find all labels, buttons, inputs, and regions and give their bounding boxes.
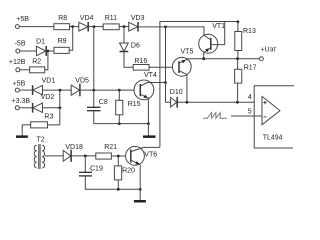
resistor R8: [54, 15, 70, 30]
resistor R16: [133, 58, 149, 70]
wire R11 to VD3: [119, 26, 129, 28]
svg-text:R9: R9: [58, 38, 67, 45]
wire R21 to VT6 base: [111, 155, 130, 157]
wire R3 left down: [22, 125, 31, 136]
svg-text:+Uэт: +Uэт: [261, 47, 278, 54]
diode VD4: [79, 15, 94, 31]
node VT6 emitter / rail: [139, 188, 142, 191]
wire VT1 base to top rail: [211, 22, 225, 45]
svg-text:R20: R20: [122, 168, 135, 175]
wire top rail: [160, 22, 238, 148]
svg-text:R8: R8: [58, 15, 67, 22]
resistor R20: [114, 166, 135, 180]
terminal +5V (second): [13, 80, 26, 92]
svg-text:4: 4: [248, 94, 252, 101]
transistor VT1: [199, 23, 225, 53]
resistor R15: [116, 100, 141, 115]
wire VD3 to VT1 collector: [138, 27, 204, 35]
wire R2 up to D1/R9 node: [45, 51, 48, 70]
svg-text:+5В: +5В: [13, 80, 26, 87]
wire +5V to VD1: [19, 89, 32, 91]
wire VD3 node down to D10: [166, 27, 171, 102]
terminal +Uet: [260, 47, 278, 61]
svg-text:VD2: VD2: [41, 94, 55, 101]
wire -5V to D1: [20, 50, 37, 52]
node R21 / R20 branch: [117, 155, 120, 158]
node R11/D6 junction: [123, 25, 126, 28]
terminal +12V: [9, 59, 26, 72]
node R15 bottom: [118, 122, 121, 125]
node VD5 / C8 branch: [92, 89, 95, 92]
wire VT1 emitter down: [203, 53, 205, 59]
node R15 top: [118, 89, 121, 92]
wire VT6 emitter down to ground: [139, 165, 141, 200]
comparator triangle U1: [262, 96, 280, 124]
wire +5V to R8: [19, 26, 54, 28]
node VT4 emitter / rail: [147, 122, 150, 125]
diode D6 (pointing down): [120, 42, 140, 51]
resistor R21: [96, 144, 117, 159]
svg-text:D6: D6: [131, 42, 140, 49]
svg-text:VD4: VD4: [80, 15, 94, 22]
svg-text:VT4: VT4: [144, 72, 157, 79]
svg-text:T2: T2: [37, 136, 45, 143]
wire VT6 collector to long vertical: [144, 146, 160, 148]
terminal +3.3V: [12, 98, 31, 110]
wire R20 top lead: [117, 156, 119, 166]
wire vertical VD1 node to VD2 node to R3: [59, 90, 61, 125]
svg-text:R15: R15: [128, 101, 141, 108]
wire VD5 to VT4 base: [80, 89, 140, 91]
node VD3 output / D10 branch: [164, 26, 167, 29]
svg-text:5: 5: [248, 109, 252, 116]
svg-text:VD18: VD18: [65, 144, 83, 151]
wire R16 to VT5 base: [149, 66, 179, 68]
resistor R13: [235, 28, 256, 50]
wire R20 bottom lead: [117, 180, 119, 189]
wire VD1 to VD5: [43, 89, 72, 91]
svg-text:+3.3В: +3.3В: [12, 98, 31, 105]
svg-text:C19: C19: [90, 166, 103, 173]
svg-text:D10: D10: [170, 89, 183, 96]
svg-text:R11: R11: [105, 15, 117, 22]
diode VD2 (cathode left): [33, 94, 55, 112]
svg-text:VD1: VD1: [42, 77, 56, 84]
wire +12V to R2: [20, 69, 30, 71]
svg-text:VT6: VT6: [144, 151, 157, 158]
svg-text:R3: R3: [44, 113, 53, 120]
node R13/R17/+U junction: [236, 57, 239, 60]
terminal -5V: [15, 41, 26, 54]
capacitor C19: [79, 156, 103, 176]
wire R13 top lead: [237, 22, 239, 32]
node VT4 collector / D10 line: [164, 81, 167, 84]
resistor R2: [30, 58, 45, 73]
wire R17 bottom lead: [237, 83, 239, 102]
ground (VT6 emitter): [134, 200, 146, 203]
node VD1/VD2 junction: [59, 89, 62, 92]
wire D6 branch down from R11 node: [123, 27, 125, 43]
minus input mark: [263, 116, 266, 118]
resistor R17: [235, 64, 257, 83]
node R17 bottom / pin4 line: [236, 101, 239, 104]
wire VD4 to R11: [88, 26, 103, 28]
wire R15 bottom lead: [118, 115, 120, 124]
node R8/R9 junction: [71, 25, 74, 28]
IC box TL494: [254, 86, 294, 148]
node R20 bottom / rail: [117, 188, 120, 191]
svg-text:VD3: VD3: [131, 15, 145, 22]
capacitor C8: [87, 99, 108, 111]
resistor R3: [31, 113, 54, 128]
transistor VT4: [134, 72, 157, 100]
wire VT4 emitter down: [147, 98, 149, 123]
svg-text:+12В: +12В: [9, 59, 26, 66]
diode VD5: [71, 77, 89, 96]
node VT5 emitter / pin4 line: [186, 101, 189, 104]
wire T2 secondary to VD18: [45, 155, 63, 157]
wire C19 bottom to ground rail: [85, 176, 140, 189]
node VD18 / C19 branch: [84, 155, 87, 158]
svg-text:-5В: -5В: [15, 41, 26, 48]
node VD4 output junction: [93, 25, 96, 28]
ground (R3): [16, 135, 28, 138]
ground (VT4 emitter): [143, 135, 156, 138]
svg-text:R16: R16: [134, 58, 147, 65]
terminal +5V (top): [15, 16, 29, 28]
pin 5 wire: [231, 115, 262, 117]
svg-text:VD5: VD5: [75, 77, 89, 84]
wire to +U terminal: [238, 58, 260, 60]
wire VT5 top lead to R13/R17 node: [188, 58, 238, 60]
diode VD18: [63, 144, 83, 162]
wire R8 to VD4: [70, 26, 79, 28]
svg-text:C8: C8: [99, 99, 108, 106]
wire VT4 emitter ground drop: [147, 124, 149, 136]
wire R17 top lead: [237, 59, 239, 70]
diode VD1 (cathode left): [33, 77, 56, 95]
resistor R11: [103, 15, 119, 30]
node VT1 emitter: [202, 57, 205, 60]
svg-text:R21: R21: [104, 144, 117, 151]
svg-text:TL494: TL494: [263, 134, 283, 141]
wire R15 top lead: [118, 90, 120, 100]
wire +3.3V to VD2: [19, 107, 32, 109]
wire VD18 to R21: [71, 155, 96, 157]
svg-text:VT5: VT5: [181, 48, 194, 55]
wire VT5 bottom lead down to pin4 line: [186, 75, 188, 103]
svg-text:+5В: +5В: [16, 16, 29, 23]
svg-text:VT1: VT1: [212, 23, 225, 30]
diode D10: [170, 89, 183, 108]
wire R3 right to vertical: [48, 124, 60, 126]
wire VD2 to junction: [43, 107, 62, 109]
svg-text:R2: R2: [32, 58, 41, 65]
wire D1 to R9: [46, 50, 54, 52]
node D1/R2 junction: [47, 50, 50, 53]
wire C8 bottom to ground rail: [94, 111, 149, 124]
wire D6 to R16: [124, 52, 133, 68]
transformer T2: [34, 136, 45, 169]
wire D10 to comparator pin 4: [177, 101, 262, 103]
svg-text:D1: D1: [36, 39, 45, 46]
node VD2/R3 junction: [58, 106, 61, 109]
plus input mark: [263, 101, 266, 104]
sawtooth waveform symbol: [203, 113, 227, 119]
wire R13 bottom lead: [237, 51, 239, 59]
svg-text:R13: R13: [243, 28, 256, 35]
transistor VT5: [172, 48, 193, 76]
diode VD3: [129, 15, 145, 32]
resistor R9: [54, 38, 69, 53]
wire R9 up to R8/VD4 node: [69, 27, 73, 51]
node rail / R13 top: [237, 20, 240, 23]
transistor VT6: [126, 147, 158, 166]
diode D1: [36, 39, 46, 56]
wire VT4 collector to D10 vertical: [147, 82, 165, 84]
svg-text:R17: R17: [244, 64, 257, 71]
wire VD4-node down to VD5 row and C8: [93, 27, 95, 108]
